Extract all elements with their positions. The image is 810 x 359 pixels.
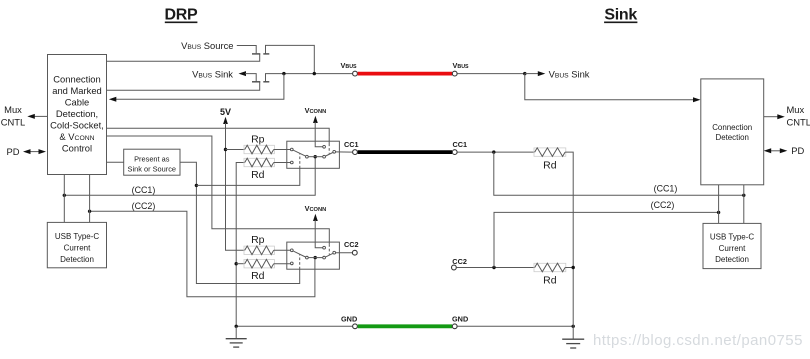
svg-text:Present as: Present as bbox=[134, 155, 170, 164]
box USB Type-C Current Detection right bbox=[703, 223, 761, 268]
transistor Q2 VBUS Sink FET bbox=[107, 71, 284, 90]
node terminal CC2 receptacle right bbox=[452, 265, 457, 270]
svg-text:and Marked: and Marked bbox=[52, 85, 102, 96]
resistor Rd right 1 backing bbox=[534, 148, 566, 156]
wire Rd right 2 to ground rail bbox=[565, 267, 573, 269]
svg-text:PD: PD bbox=[791, 145, 804, 156]
switch SW2 contacts bbox=[290, 246, 335, 264]
svg-text:Sink or Source: Sink or Source bbox=[128, 165, 176, 174]
svg-text:(CC1): (CC1) bbox=[132, 185, 156, 195]
wire VBUS drop to Connection Detection bbox=[525, 74, 701, 103]
svg-text:Rd: Rd bbox=[543, 274, 557, 286]
node junction selector branch bbox=[195, 184, 198, 187]
resistor Rp2 bbox=[245, 246, 274, 255]
wire (CC2) branch right bbox=[494, 212, 719, 267]
wire conn detection to usb box vertical right 1 bbox=[743, 185, 745, 224]
svg-text:CC2: CC2 bbox=[344, 240, 359, 249]
wire CC1 cable (black) bbox=[358, 150, 452, 154]
svg-text:CC1: CC1 bbox=[453, 140, 468, 149]
node junction GND right bbox=[572, 325, 575, 328]
node terminal CC1 plug left bbox=[353, 150, 358, 155]
svg-text:Rp: Rp bbox=[251, 133, 265, 145]
node junction CC1 line left bbox=[63, 194, 66, 197]
label Mux CNTL left bbox=[1, 104, 25, 128]
svg-text:Sink: Sink bbox=[604, 7, 637, 24]
svg-text:Detection,: Detection, bbox=[56, 108, 98, 119]
svg-text:Rd: Rd bbox=[251, 169, 265, 181]
svg-text:Cold-Socket,: Cold-Socket, bbox=[50, 120, 104, 131]
wire dashed linkage vconn switch CC2 bbox=[328, 244, 330, 254]
node junction 5V to Rp1 bbox=[224, 148, 227, 151]
svg-text:VBUS Sink: VBUS Sink bbox=[549, 68, 590, 79]
wire VBUS sense to control box bbox=[109, 74, 284, 102]
svg-text:GND: GND bbox=[452, 315, 468, 324]
wire arrow to VBUS Sink label right bbox=[525, 71, 546, 76]
resistor Rd2 bbox=[245, 259, 274, 268]
svg-text:PD: PD bbox=[6, 146, 19, 157]
svg-text:Mux: Mux bbox=[787, 104, 805, 115]
node terminal GND receptacle right bbox=[452, 324, 457, 329]
box USB Type-C Current Detection left bbox=[47, 222, 106, 267]
svg-text:Control: Control bbox=[62, 143, 92, 154]
svg-text:Detection: Detection bbox=[60, 255, 94, 264]
svg-text:https://blog.csdn.net/pan0755: https://blog.csdn.net/pan0755 bbox=[593, 332, 803, 349]
label Mux CNTL right bbox=[787, 104, 810, 128]
wire CC1 rail right bbox=[457, 151, 534, 153]
ground symbol left bbox=[226, 326, 247, 347]
wire Rp1 lead bbox=[226, 149, 245, 151]
resistor Rd1 backing bbox=[244, 158, 274, 166]
wire CC2 rail right bbox=[457, 267, 535, 269]
wire GND rail left bbox=[236, 325, 352, 327]
wire dashed linkage vconn switch CC1 bbox=[328, 144, 330, 154]
node junction (CC1) right end bbox=[742, 194, 745, 197]
node junction CC2 line left bbox=[88, 210, 91, 213]
wire Rp1 to switch bbox=[274, 149, 291, 151]
box Connection Detection bbox=[701, 79, 764, 185]
node junction CC1 right bbox=[492, 150, 495, 153]
wire control box to CC2 vconn switch (y 136 / 228.8) bbox=[107, 136, 330, 244]
svg-text:CNTL: CNTL bbox=[1, 117, 25, 128]
svg-text:Detection: Detection bbox=[715, 255, 749, 264]
svg-text:Connection: Connection bbox=[53, 74, 100, 85]
wire control box to USB box vertical 2 bbox=[89, 175, 91, 223]
svg-text:Cable: Cable bbox=[65, 97, 90, 108]
svg-text:GND: GND bbox=[341, 315, 357, 324]
wire control box to USB box vertical 1 bbox=[63, 175, 65, 223]
svg-text:Rd: Rd bbox=[251, 270, 265, 282]
wire VBUS rail left bbox=[284, 73, 352, 75]
wire VBUS cable (red) bbox=[358, 72, 452, 76]
wire dashed linkage selector CC1 bbox=[299, 154, 301, 169]
switch SW2 levers bbox=[293, 251, 333, 258]
title DRP bbox=[165, 6, 199, 23]
wire control box to present box bbox=[107, 161, 124, 163]
wire present box to switch selectors bbox=[180, 162, 300, 283]
wire (CC1) line left bbox=[64, 158, 315, 195]
resistor Rd right 2 bbox=[535, 263, 565, 272]
node junction GND left bbox=[235, 325, 238, 328]
wire VBUS rail right bbox=[457, 73, 524, 75]
ground symbol right bbox=[562, 326, 584, 348]
transistor Q1 VBUS Source FET bbox=[107, 45, 315, 72]
wire Rd1 to switch bbox=[274, 162, 291, 164]
wire GND rail right bbox=[457, 325, 573, 327]
svg-text:Current: Current bbox=[719, 244, 746, 253]
wire Rp2 to switch bbox=[274, 249, 291, 251]
wire VCONN feed upper bbox=[313, 116, 323, 147]
control box U1: Connection and Marked Cable Detection bbox=[48, 55, 107, 175]
node junction VBUS rail b bbox=[313, 72, 316, 75]
wire PD right double arrow bbox=[764, 148, 788, 153]
wire SW1 common to CC1 plug bbox=[336, 151, 353, 153]
svg-text:Rp: Rp bbox=[251, 234, 265, 246]
resistor Rd right 2 backing bbox=[534, 263, 566, 271]
wire Mux CNTL right arrow bbox=[764, 114, 785, 119]
wire (CC2) line left bbox=[90, 211, 315, 296]
node junction CC2 right a bbox=[492, 266, 495, 269]
switch SW1 contacts bbox=[290, 145, 335, 163]
node terminal CC1 receptacle right bbox=[452, 150, 457, 155]
wire Rd right 1 to ground rail bbox=[565, 152, 573, 326]
svg-text:5V: 5V bbox=[220, 107, 231, 117]
resistor Rp2 backing bbox=[244, 246, 274, 254]
wire Rd2 to switch bbox=[274, 263, 291, 265]
title Sink bbox=[604, 7, 637, 24]
svg-text:Rd: Rd bbox=[543, 159, 557, 171]
svg-text:Current: Current bbox=[64, 244, 91, 253]
node terminal VBUS receptacle right bbox=[452, 71, 457, 76]
node terminal CC2 plug left bbox=[352, 250, 357, 255]
resistor Rp1 backing bbox=[244, 145, 274, 153]
node terminal GND plug left bbox=[353, 324, 358, 329]
resistor Rd right 1 bbox=[535, 148, 565, 157]
wire dashed linkage selector CC2 bbox=[299, 254, 301, 269]
svg-text:Mux: Mux bbox=[4, 104, 22, 115]
svg-text:USB Type-C: USB Type-C bbox=[55, 232, 100, 241]
svg-text:CNTL: CNTL bbox=[787, 116, 810, 127]
wire Rd1 feed bbox=[236, 163, 245, 327]
svg-text:USB Type-C: USB Type-C bbox=[710, 232, 755, 241]
wire 5V feed bbox=[223, 117, 245, 251]
node junction VBUS right bbox=[523, 72, 526, 75]
node junction Rd2 feed bbox=[235, 262, 238, 265]
svg-text:VBUS Sink: VBUS Sink bbox=[192, 68, 233, 79]
svg-text:(CC1): (CC1) bbox=[654, 184, 678, 194]
svg-text:DRP: DRP bbox=[165, 6, 199, 23]
resistor Rd1 bbox=[245, 158, 274, 167]
wire (CC1) branch right bbox=[494, 152, 744, 195]
node junction Rd right 2 bbox=[572, 266, 575, 269]
wire conn detection to usb box vertical right 2 bbox=[718, 185, 720, 224]
node junction VBUS rail a bbox=[282, 72, 285, 75]
wire PD left double arrow bbox=[23, 149, 46, 154]
node junction (CC2) right end bbox=[717, 211, 720, 214]
svg-text:(CC2): (CC2) bbox=[132, 201, 156, 211]
wire SW2 common to CC2 plug bbox=[336, 252, 352, 254]
svg-text:Detection: Detection bbox=[716, 133, 749, 142]
switch SW1 levers bbox=[293, 150, 333, 157]
wire VCONN feed lower bbox=[313, 214, 323, 248]
resistor Rd2 backing bbox=[244, 260, 274, 268]
switch box SW1 (CC1) bbox=[287, 141, 340, 168]
svg-text:Connection: Connection bbox=[712, 123, 752, 132]
box Present as Sink or Source bbox=[124, 149, 180, 175]
wire selector branch to CC1 switch bbox=[196, 168, 299, 185]
node terminal VBUS plug left bbox=[353, 71, 358, 76]
switch box SW2 (CC2) bbox=[287, 242, 340, 269]
resistor Rp1 bbox=[245, 145, 274, 154]
wire control box to CC1 vconn switch (y 128.3) bbox=[107, 128, 330, 143]
svg-text:(CC2): (CC2) bbox=[651, 200, 675, 210]
wire GND cable (green) bbox=[358, 324, 452, 328]
wire Mux CNTL left arrow bbox=[27, 114, 47, 119]
wire Rd2 lead bbox=[236, 263, 245, 265]
svg-text:CC1: CC1 bbox=[344, 140, 359, 149]
